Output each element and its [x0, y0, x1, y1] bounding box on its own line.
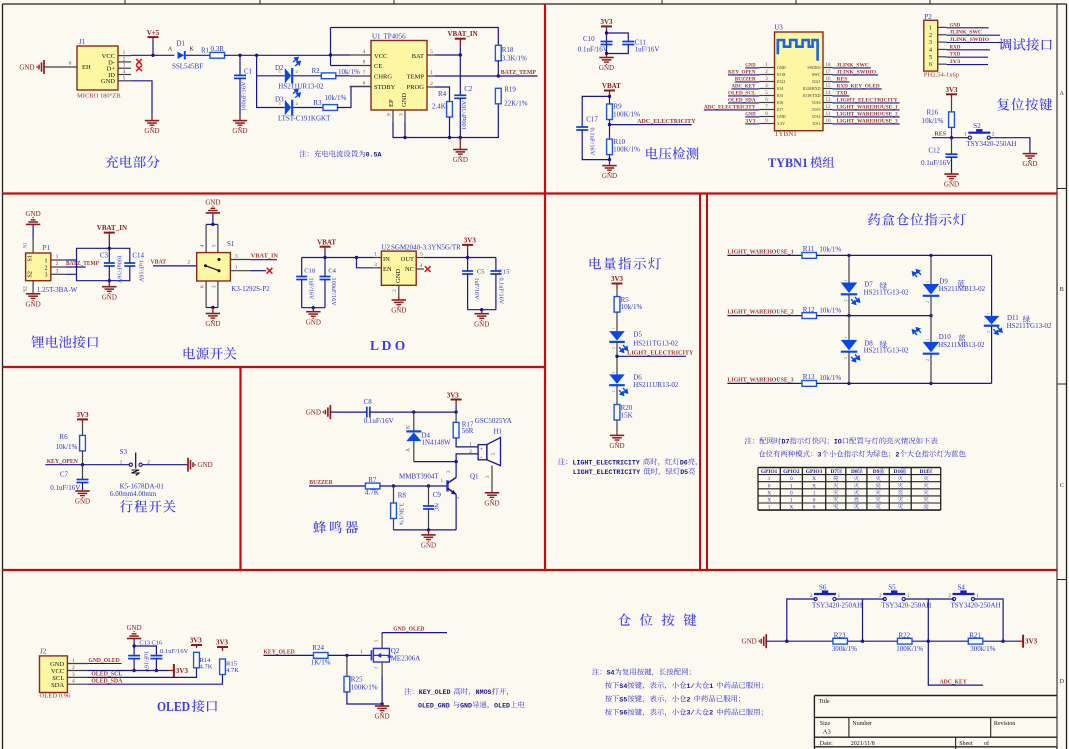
svg-text:3.3K/1%: 3.3K/1% — [502, 54, 527, 62]
svg-text:100K/1%: 100K/1% — [613, 110, 640, 118]
svg-text:IO6: IO6 — [777, 100, 783, 105]
svg-text:1: 1 — [279, 69, 281, 74]
svg-text:S1: S1 — [23, 242, 29, 248]
svg-text:2: 2 — [844, 357, 848, 359]
svg-text:1: 1 — [45, 258, 48, 264]
svg-text:2: 2 — [123, 56, 126, 62]
LED D3 green standby indicator — [257, 76, 285, 108]
svg-text:18: 18 — [826, 63, 832, 68]
LDO input rail — [302, 257, 374, 259]
svg-text:2: 2 — [879, 593, 882, 599]
svg-text:K: K — [406, 425, 412, 429]
svg-text:R1: R1 — [201, 47, 210, 55]
svg-text:VCC: VCC — [374, 53, 387, 60]
svg-text:1: 1 — [790, 498, 793, 504]
svg-text:SWDIO: SWDIO — [807, 65, 820, 70]
resistor R6 10k — [80, 435, 86, 451]
svg-text:B: B — [1060, 287, 1064, 293]
svg-text:EP: EP — [388, 99, 395, 107]
svg-text:2: 2 — [72, 665, 75, 671]
svg-text:4.7K: 4.7K — [365, 488, 379, 496]
svg-text:2: 2 — [895, 452, 899, 459]
svg-text:LIGHT_ELECTRICITY: LIGHT_ELECTRICITY — [573, 459, 640, 466]
resistor R3 10k — [323, 105, 338, 111]
net BATZ_TEMP — [435, 75, 538, 77]
svg-text:10: 10 — [826, 119, 832, 124]
svg-text:2: 2 — [430, 81, 433, 87]
svg-text:GND_OLED: GND_OLED — [393, 626, 424, 633]
U3 right pins with net labels — [823, 67, 833, 69]
svg-text:+: + — [480, 447, 483, 453]
svg-text:U2: U2 — [381, 244, 390, 252]
ground above C13 (flipped) — [133, 639, 135, 647]
svg-text:K: K — [189, 47, 194, 53]
svg-text:S5: S5 — [888, 584, 896, 592]
svg-text:15K: 15K — [621, 411, 633, 419]
svg-text:3: 3 — [235, 253, 238, 259]
svg-text:IO21: IO21 — [812, 79, 820, 84]
no-connect X marks on D-/D+ — [136, 59, 142, 65]
svg-text:GND: GND — [944, 181, 959, 189]
svg-text:of: of — [984, 740, 989, 747]
svg-text:R7: R7 — [368, 476, 377, 484]
svg-text:VBAT: VBAT — [151, 259, 167, 266]
svg-text:3.3K/1%: 3.3K/1% — [398, 503, 405, 525]
capacitor C7 — [82, 465, 84, 480]
ground below battery caps — [108, 281, 110, 287]
U2 NC no-connect — [425, 266, 431, 272]
resistor R20 15K — [614, 405, 620, 421]
svg-text:GND: GND — [198, 461, 213, 469]
resistor R15 4.7K — [220, 659, 226, 675]
svg-text:VBAT_IN: VBAT_IN — [448, 30, 478, 38]
svg-text:R3: R3 — [313, 99, 322, 107]
svg-text:Sheet: Sheet — [959, 741, 973, 747]
svg-text:KEY_OLED: KEY_OLED — [419, 689, 451, 696]
connector J1 micro-USB — [77, 46, 118, 90]
capacitor C4 — [324, 258, 326, 277]
svg-text:100uF/16V: 100uF/16V — [330, 278, 337, 307]
power flag 3V3 LED chain — [612, 283, 623, 285]
svg-text:0.1uF/16V: 0.1uF/16V — [589, 128, 596, 156]
svg-text:3/: 3/ — [687, 710, 695, 717]
svg-text:X: X — [789, 505, 793, 511]
svg-text:3V3: 3V3 — [447, 391, 460, 399]
svg-text:ADC_KEY: ADC_KEY — [940, 678, 968, 685]
svg-text:TP4056: TP4056 — [384, 33, 407, 41]
wire S3 to ground — [142, 464, 188, 466]
ground below P1 — [32, 293, 34, 295]
svg-text:GND: GND — [75, 498, 90, 506]
svg-text:BATZ_TEMP: BATZ_TEMP — [66, 260, 99, 267]
connector P1 battery 1.25T-3BA-W — [26, 253, 51, 281]
wire R2 to CHRG pin — [336, 75, 350, 77]
svg-text:MICRO 180°ZB: MICRO 180°ZB — [77, 93, 121, 100]
svg-text:R12: R12 — [803, 306, 815, 314]
net KEY_OLED — [264, 654, 314, 656]
wire gnd to C8 — [330, 411, 366, 413]
resistor R22 100K — [898, 638, 913, 644]
resistor R25 100K — [346, 655, 348, 676]
svg-text:GND: GND — [742, 638, 757, 646]
svg-text:C5: C5 — [477, 268, 485, 275]
power flag 3V3 buzzer — [451, 399, 462, 401]
resistor R8 3.3K — [393, 486, 395, 503]
svg-text:CE: CE — [374, 63, 382, 70]
svg-text:10k/1%: 10k/1% — [922, 117, 944, 125]
antenna glyph — [778, 40, 818, 61]
power flag 3V3 R14 — [191, 644, 202, 646]
svg-text:R13: R13 — [803, 373, 815, 381]
capacitor C12 — [951, 138, 953, 155]
svg-text:X: X — [767, 490, 771, 496]
svg-text:J1: J1 — [79, 38, 86, 46]
svg-text:R8: R8 — [398, 492, 407, 500]
resistor R24 1K — [314, 653, 329, 659]
svg-text:RES: RES — [934, 130, 946, 137]
P1 top shield pin — [32, 240, 34, 253]
svg-text:4: 4 — [929, 47, 932, 53]
svg-text:HS211UR13-02: HS211UR13-02 — [278, 82, 324, 90]
P1 bottom shield pin — [32, 281, 34, 294]
svg-text:4: 4 — [72, 679, 75, 685]
ground below C1 — [239, 117, 241, 121]
ground below Q2 — [381, 704, 383, 706]
svg-text:C7: C7 — [60, 471, 69, 479]
svg-text:TSY3420-250AH: TSY3420-250AH — [966, 140, 1016, 148]
section title: power switch — [184, 347, 195, 359]
switch S1 K3-1292S-P2 — [197, 253, 231, 281]
svg-text:GND: GND — [401, 93, 408, 107]
svg-text:GND: GND — [777, 114, 786, 119]
ground above S1 (flipped) — [212, 213, 214, 225]
svg-text:3: 3 — [56, 268, 59, 274]
ground below C10 — [606, 54, 608, 58]
svg-text:A3: A3 — [823, 729, 831, 736]
section title: voltage sense — [646, 147, 657, 159]
section title: debug port — [999, 38, 1011, 50]
svg-text:2.4K: 2.4K — [432, 103, 446, 111]
resistor R10 100K — [607, 139, 613, 155]
svg-text:3V3: 3V3 — [611, 275, 624, 283]
net LIGHT_ELECTRICITY — [615, 355, 618, 358]
svg-text:ADC_ELECTRICITY: ADC_ELECTRICITY — [704, 104, 756, 110]
note: warehouse LED config — [745, 437, 752, 444]
LED D5 green — [609, 331, 625, 341]
wire speaker pin2 to collector node — [456, 454, 478, 462]
section title: charging — [106, 156, 119, 169]
svg-text:SSL545BF: SSL545BF — [172, 62, 203, 70]
svg-text:BATZ_TEMP: BATZ_TEMP — [501, 69, 536, 76]
svg-text:100uF/16V: 100uF/16V — [461, 100, 468, 130]
resistor R2 10k — [321, 73, 336, 79]
svg-text:22K/1%: 22K/1% — [504, 100, 528, 108]
svg-text:D: D — [1060, 679, 1065, 685]
resistor R14 4.7K — [194, 652, 200, 668]
svg-text:LIGHT_WAREHOUSE_3: LIGHT_WAREHOUSE_3 — [727, 376, 794, 383]
speaker H1 GSC5025YA — [478, 445, 487, 460]
wire J1 GND pin to ground — [131, 81, 152, 117]
svg-text:GND: GND — [453, 156, 468, 164]
S1 bottom pin pair — [205, 281, 207, 308]
svg-text:2: 2 — [296, 69, 298, 74]
svg-text:D10: D10 — [894, 469, 904, 475]
section title: battery connector — [31, 336, 44, 348]
svg-text:HS211MB13-02: HS211MB13-02 — [939, 285, 986, 293]
svg-text:ADC_KEY: ADC_KEY — [731, 83, 755, 89]
svg-text:Q1: Q1 — [470, 473, 479, 481]
Q1 emitter wire — [455, 495, 457, 530]
svg-text:GND: GND — [599, 64, 614, 72]
svg-text:2: 2 — [929, 33, 932, 39]
ground left of C8 — [329, 405, 331, 419]
svg-text:IO7: IO7 — [777, 107, 783, 112]
ground at S2 — [1029, 152, 1031, 154]
power flag VBAT at LDO — [320, 246, 331, 248]
svg-text:TYBN1: TYBN1 — [768, 156, 808, 170]
svg-text:C10: C10 — [583, 35, 595, 43]
svg-text:11: 11 — [826, 112, 831, 117]
power flag V+5 — [148, 36, 159, 38]
svg-text:D5: D5 — [680, 469, 688, 476]
svg-text:1: 1 — [469, 441, 472, 447]
svg-text:S4: S4 — [619, 683, 627, 690]
svg-text:OLED: OLED — [494, 702, 510, 709]
svg-text:BUZZER: BUZZER — [309, 479, 333, 486]
svg-text:Revision: Revision — [994, 721, 1015, 727]
svg-text:1: 1 — [709, 683, 713, 690]
svg-text:HS211TG13-02: HS211TG13-02 — [633, 340, 678, 348]
svg-text:GND: GND — [144, 127, 159, 135]
LED D2 red charge indicator — [257, 55, 285, 76]
svg-text:1/: 1/ — [687, 683, 695, 690]
svg-text:STDBY: STDBY — [374, 84, 396, 91]
svg-text:1: 1 — [768, 476, 771, 482]
svg-text:13: 13 — [826, 98, 832, 103]
svg-text:56R: 56R — [462, 427, 474, 435]
svg-text:5: 5 — [123, 75, 126, 81]
svg-text:S6: S6 — [619, 710, 627, 717]
net BATZ_TEMP at P1 pin2 — [66, 266, 86, 268]
note: LED behaviour — [558, 458, 565, 465]
capacitor C9 NC — [428, 486, 430, 506]
svg-text:U1: U1 — [372, 33, 381, 41]
svg-text:GND: GND — [26, 210, 41, 218]
svg-text:S4: S4 — [607, 670, 615, 677]
resistor R18 3.3K — [495, 45, 501, 61]
svg-text:LIGHT_ELECTRICITY: LIGHT_ELECTRICITY — [573, 469, 640, 476]
svg-text:2: 2 — [844, 299, 848, 301]
LDO output rail — [424, 257, 496, 259]
section title: warehouse buttons — [618, 614, 631, 626]
svg-text:GND: GND — [101, 78, 115, 85]
svg-text:2: 2 — [948, 593, 951, 599]
ground below divider — [609, 160, 611, 166]
top rail wire to R18 — [331, 28, 499, 46]
wire R7 to base — [380, 485, 448, 487]
svg-text:VBAT_IN: VBAT_IN — [251, 253, 279, 260]
resistor R17 56R — [455, 412, 457, 422]
svg-text:U3: U3 — [774, 24, 783, 32]
resistor R21 300k — [968, 638, 983, 644]
svg-text:0.3R: 0.3R — [211, 45, 225, 53]
svg-text:0.1uF/16V: 0.1uF/16V — [921, 159, 951, 167]
svg-text:GND: GND — [19, 63, 34, 71]
power flag VBAT divider — [604, 90, 615, 92]
svg-text:0.1uF/16V: 0.1uF/16V — [364, 417, 394, 425]
svg-text:1: 1 — [768, 505, 771, 511]
svg-text:A: A — [168, 47, 173, 53]
svg-text:3: 3 — [929, 40, 932, 46]
wire C8 to 3V3 node — [370, 411, 456, 413]
svg-text:S2: S2 — [23, 286, 29, 292]
svg-text:1: 1 — [360, 649, 363, 655]
svg-text:NC: NC — [405, 266, 414, 273]
svg-text:IO16: IO16 — [812, 100, 820, 105]
svg-text:GPIO2: GPIO2 — [783, 469, 800, 475]
svg-text:2: 2 — [374, 667, 379, 669]
J2 VCC rail to 3V3 — [88, 670, 168, 672]
svg-text:TYBN1: TYBN1 — [774, 130, 797, 138]
svg-text:3: 3 — [72, 672, 75, 678]
LED D8 green — [848, 316, 850, 340]
ground right of S3 — [187, 458, 189, 472]
svg-text:OLED: OLED — [157, 700, 190, 715]
J1 pin 6 lead — [44, 66, 77, 68]
svg-text:D10: D10 — [939, 333, 952, 341]
wire D1 to R1 — [186, 54, 210, 56]
svg-text:C9: C9 — [433, 491, 442, 499]
svg-text:3V3: 3V3 — [190, 637, 203, 645]
P1 pins 1-3 — [51, 259, 66, 261]
svg-text:HS211MB13-02: HS211MB13-02 — [938, 341, 985, 349]
svg-text:1: 1 — [964, 132, 967, 138]
svg-text:Size: Size — [820, 721, 831, 727]
LDO right ground rail — [468, 309, 496, 311]
svg-text:D8: D8 — [851, 469, 858, 475]
svg-text:IO20/RXD: IO20/RXD — [803, 86, 821, 91]
svg-text:EH: EH — [82, 64, 91, 71]
svg-text:GND: GND — [232, 127, 247, 135]
svg-text:C8: C8 — [364, 398, 373, 406]
svg-text:H1: H1 — [494, 428, 503, 436]
svg-text:2: 2 — [392, 289, 398, 292]
ground left of button row — [765, 634, 767, 648]
svg-text:D6: D6 — [680, 459, 688, 466]
svg-text:1: 1 — [987, 313, 991, 315]
net KEY_OPEN — [45, 464, 130, 466]
svg-text:OLED_SDA: OLED_SDA — [728, 97, 756, 103]
Q1 collector wire — [455, 462, 457, 478]
svg-text:BUZZER: BUZZER — [735, 76, 757, 82]
svg-text:GND: GND — [474, 320, 489, 328]
power flag 3V3 LDO out — [462, 244, 473, 246]
svg-text:12: 12 — [826, 105, 832, 110]
svg-text:IO4: IO4 — [777, 86, 783, 91]
svg-text:6: 6 — [69, 61, 72, 67]
svg-text:1: 1 — [612, 328, 616, 330]
svg-text:0.5A: 0.5A — [366, 152, 382, 159]
svg-text:K3-1292S-P2: K3-1292S-P2 — [231, 285, 270, 293]
title block — [814, 695, 1057, 697]
svg-text:VBAT_IN: VBAT_IN — [97, 224, 127, 232]
svg-text:10k/1%: 10k/1% — [56, 443, 78, 451]
svg-text:3V3: 3V3 — [945, 86, 958, 94]
svg-text:TEMP: TEMP — [407, 74, 425, 81]
wire R3 to STDBY pin — [338, 87, 372, 108]
capacitor C3 — [108, 248, 110, 263]
svg-text:R9: R9 — [614, 103, 623, 111]
svg-text:3V3: 3V3 — [745, 118, 756, 124]
ground below J1 — [151, 117, 153, 121]
LDO left ground rail — [302, 307, 325, 309]
svg-text:GND_OLED: GND_OLED — [89, 657, 120, 664]
svg-text:1: 1 — [72, 658, 75, 664]
svg-text:5: 5 — [929, 55, 932, 61]
svg-text:PH2.54-1x6p: PH2.54-1x6p — [924, 72, 960, 79]
svg-text:GND: GND — [602, 172, 617, 180]
battery cap loop wires — [66, 248, 130, 263]
J1 pins 1-5 — [118, 55, 131, 57]
svg-text:IO11: IO11 — [812, 121, 820, 126]
svg-text:4: 4 — [419, 263, 422, 269]
diode D1 SSL545BF — [178, 52, 185, 59]
svg-text:C: C — [1060, 483, 1064, 489]
svg-text:3V3: 3V3 — [216, 639, 229, 647]
svg-text:1: 1 — [120, 459, 123, 465]
svg-text:1: 1 — [844, 337, 848, 339]
net OLED_SCL wire to R14 — [88, 668, 197, 678]
svg-text:1: 1 — [612, 371, 616, 373]
ground below U1 — [459, 138, 461, 150]
svg-text:1: 1 — [430, 70, 433, 76]
wire R17 to speaker pin1 — [456, 438, 478, 447]
svg-text:6.00mm4.00mm: 6.00mm4.00mm — [110, 490, 157, 498]
svg-text:6: 6 — [363, 81, 366, 87]
svg-text:SGM2040-3.3YN5G/TR: SGM2040-3.3YN5G/TR — [391, 244, 461, 252]
svg-text:GND: GND — [609, 442, 624, 450]
power flag 3V3 reset — [946, 93, 957, 95]
svg-text:D9: D9 — [873, 469, 880, 475]
capacitor C2 — [459, 55, 461, 95]
svg-text:2: 2 — [709, 710, 713, 717]
svg-text:D7: D7 — [830, 469, 837, 475]
svg-text:100uF/16V: 100uF/16V — [116, 255, 123, 284]
IC U2 SGM2040 — [381, 251, 416, 285]
button row bottom rail — [766, 640, 1018, 642]
power flag 3V3 at C10 — [601, 25, 612, 27]
svg-text:X: X — [812, 483, 816, 489]
net VBAT_IN at S1 pin3 — [250, 259, 277, 261]
switch S5 — [883, 597, 886, 600]
svg-text:VBAT: VBAT — [317, 238, 336, 246]
svg-text:GND: GND — [127, 624, 142, 632]
resistor R19 22K — [495, 88, 501, 104]
svg-text:10k/1%: 10k/1% — [325, 94, 347, 102]
svg-text:NC: NC — [433, 503, 440, 512]
svg-text:C16: C16 — [152, 640, 163, 647]
net BUZZER — [309, 485, 365, 487]
svg-text:1N4148W: 1N4148W — [422, 439, 452, 447]
power flag 3V3 buttons — [1018, 640, 1023, 642]
svg-text:2: 2 — [612, 347, 616, 349]
buzzer ground rail — [394, 529, 457, 531]
power flag 3V3 R15 — [217, 646, 228, 648]
svg-text:C12: C12 — [928, 147, 940, 155]
resistor R5 10k — [614, 297, 620, 313]
svg-text:R19: R19 — [504, 86, 516, 94]
svg-text:1uF/16V: 1uF/16V — [138, 260, 145, 283]
